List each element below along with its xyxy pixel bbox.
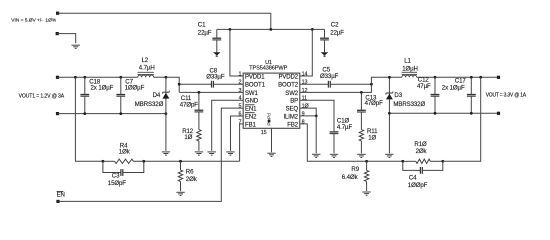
ground input [72,45,80,48]
junction dot BOOT2 tap [370,83,373,86]
svg-text:1Ø: 1Ø [184,134,192,141]
wire L2 to SW corner [154,77,180,92]
wire GND pin4 [212,100,244,151]
svg-text:FB2: FB2 [287,122,298,128]
junction dot C17 bottom [470,112,473,115]
ground D3 [385,154,393,157]
svg-text:PwPd: PwPd [267,113,273,126]
svg-text:1: 1 [238,71,241,77]
junction dot C12 bottom [434,112,437,115]
wire ground rail ch1 [58,113,166,115]
label VOUT2 [486,93,527,99]
capacitor C13 [357,92,366,129]
svg-text:VOUT = 3.3V @ 1A: VOUT = 3.3V @ 1A [486,93,527,99]
svg-text:BP: BP [290,99,298,105]
svg-text:BOOT2: BOOT2 [278,83,299,89]
svg-text:1ØØµF: 1ØØµF [125,85,145,92]
wire VOUT2 rail [417,76,499,78]
capacitor C7 [116,77,125,113]
svg-text:4: 4 [238,96,241,102]
label C12 [417,77,431,90]
wire input gnd stub [57,34,75,44]
ground D4 [162,152,170,155]
wire EN2 pin6 [231,116,244,151]
junction dot PVDD2 tap [311,28,314,31]
svg-text:D4: D4 [153,92,161,99]
resistor R10 [416,159,431,163]
svg-text:EN2: EN2 [245,114,257,120]
ground C1 arrow [213,52,221,57]
ground R12 C11 [195,152,203,155]
ground R6 [176,192,184,195]
svg-text:L1: L1 [404,58,411,65]
label R12 [182,128,194,141]
svg-text:15: 15 [261,130,267,136]
svg-text:Ø33µF: Ø33µF [320,73,339,80]
wire SEQ pin10 [300,108,316,116]
junction dot C17 top [470,76,473,79]
capacitor C5 [328,81,330,88]
label R6 [186,169,198,184]
svg-text:2: 2 [238,80,241,86]
svg-text:47ØpF: 47ØpF [180,101,199,108]
svg-text:EN1: EN1 [245,107,257,113]
svg-text:1ØØpF: 1ØØpF [408,182,428,189]
resistor R6 [178,161,182,191]
wire VIN rail drop to PVDD line [270,13,272,29]
svg-text:3: 3 [238,88,241,94]
label R4 [119,143,131,156]
label C3 [108,172,127,187]
ground C10 [330,154,338,157]
ground EN2 [226,152,234,155]
wire BOOT2 line [300,83,372,85]
svg-text:MBRS32Ø: MBRS32Ø [135,101,164,108]
svg-text:D3: D3 [394,92,402,99]
label C4 [408,174,428,189]
junction dot VOUT1 sense tap [74,76,77,79]
inductor L2 [138,72,154,77]
svg-text:GND: GND [245,99,259,105]
svg-text:2Øk: 2Øk [416,148,428,155]
node return terminal ch1 [56,112,59,115]
ground R11 [357,154,365,157]
svg-text:FB1: FB1 [245,122,256,128]
capacitor C10 [330,132,339,153]
junction dot C18 bottom [83,112,86,115]
label R10 [414,141,427,155]
label VIN [11,18,57,24]
junction dot R10 right [441,160,444,163]
wire SW1 line [179,91,243,93]
label C7 [125,78,145,91]
diode D4 MBRS320 [162,77,169,151]
node EN terminal [56,200,59,203]
svg-text:ILIM2: ILIM2 [283,114,298,120]
svg-text:SW2: SW2 [285,91,298,97]
junction dot D3 top [388,76,391,79]
svg-text:C1: C1 [198,22,206,29]
ground SEQ ILIM2 [312,154,320,157]
junction dot C12 top [434,76,437,79]
junction dot R4 right [142,160,145,163]
node VOUT1 terminal [56,76,59,79]
capacitor C3 parallel loop [103,161,144,176]
wire pin15 to ground [271,128,273,152]
svg-text:R6: R6 [186,169,194,176]
svg-text:2x 1ØµF: 2x 1ØµF [91,85,114,92]
ground pin15 [267,153,275,156]
junction dot PVDD1 tap [229,28,232,31]
label C1 [198,22,212,37]
svg-text:PVDD2: PVDD2 [278,74,298,80]
junction dot R4 left [102,160,105,163]
wire FB2 line [367,160,443,162]
ground C2 arrow [321,52,329,57]
wire ground rail ch2 [389,112,498,114]
svg-text:22µF: 22µF [330,29,344,36]
svg-text:TPS54386PWP: TPS54386PWP [249,66,287,72]
svg-text:BOOT1: BOOT1 [245,83,266,89]
node VOUT2 terminal [497,76,500,79]
label L2 [139,57,155,72]
svg-text:R1Ø: R1Ø [414,141,427,148]
capacitor C4 parallel loop [403,161,443,174]
junction dot R6 top [179,160,182,163]
capacitor C12 [431,77,440,113]
label R9 [342,166,360,181]
wire VOUT1 rail left [58,76,138,78]
svg-text:MBRS332Ø: MBRS332Ø [393,101,425,108]
svg-text:15ØpF: 15ØpF [108,180,127,187]
capacitor C1 [212,29,221,52]
junction dot C18 top [83,76,86,79]
resistor R12 [197,130,201,151]
svg-text:22µF: 22µF [198,29,212,36]
svg-text:6: 6 [238,111,241,117]
wire SW2 line [300,77,402,92]
junction dot FB2 sense tap [479,76,482,79]
label C17 [442,78,467,92]
wire ILIM2 pin9 [300,116,316,153]
svg-text:7: 7 [238,119,241,125]
wire FB2 pin8 [300,124,367,161]
svg-text:L2: L2 [142,57,149,64]
node return terminal ch2 [497,112,500,115]
junction dot C7 bottom [119,112,122,115]
node VIN input terminal [56,12,59,15]
label U1 [249,60,287,71]
resistor R4 [115,159,134,163]
junction dot snubber tap ch1 [198,91,201,94]
wire PVDD2 riser [300,29,313,76]
diode D3 MBRS3320 [386,77,393,153]
svg-text:2x 1ØµF: 2x 1ØµF [442,85,465,92]
svg-text:5: 5 [238,104,241,110]
label D4 [135,92,164,108]
label C11 [180,95,199,108]
svg-text:1Øk: 1Øk [119,149,131,156]
pin 15 PowerPAD [261,113,273,136]
svg-text:1ØµH: 1ØµH [402,66,418,73]
svg-text:SW1: SW1 [245,91,258,97]
resistor R9 [364,161,368,191]
label C10 [337,118,353,131]
wire BP line [300,100,334,132]
svg-text:SEQ: SEQ [286,107,299,113]
svg-text:C4: C4 [409,174,417,181]
wire FB1 line [103,160,240,162]
svg-text:1Ø: 1Ø [368,134,376,141]
junction dot snubber tap ch2 [360,91,363,94]
label VOUT1 [19,94,65,100]
wire FB1 riser [240,124,244,161]
junction dot SEQ ILIM2 [315,115,318,118]
label R11 [367,128,378,141]
svg-text:9: 9 [302,111,305,117]
svg-text:47µF: 47µF [417,83,431,90]
label C5 [320,67,339,80]
label EN [57,191,65,198]
wire PVDD1 riser [230,29,243,76]
junction dot VIN join [269,28,272,31]
wire FB2 sense riser [443,77,481,161]
svg-text:C17: C17 [455,78,467,85]
svg-text:4.7µH: 4.7µH [139,65,155,72]
capacitor C2 [320,29,329,52]
svg-text:C2: C2 [331,22,339,29]
junction dot BOOT1 tap [178,83,181,86]
capacitor C11 [195,92,204,129]
svg-text:47ØpF: 47ØpF [365,100,384,107]
label C13 [365,94,384,106]
op-amp U1 TPS54386PWP body [238,71,309,128]
svg-text:6.4Øk: 6.4Øk [342,174,359,181]
capacitor C17 [467,77,476,113]
svg-text:4.7µF: 4.7µF [337,124,353,131]
label C2 [330,22,344,37]
inductor L1 [402,72,417,77]
label C18 [89,78,113,91]
junction dot D3 rail [388,112,391,115]
svg-text:2Øk: 2Øk [186,176,198,183]
svg-text:VOUT1 = 1.2V @ 3A: VOUT1 = 1.2V @ 3A [19,94,65,100]
svg-text:VIN = 5.ØV +/- 1Ø%: VIN = 5.ØV +/- 1Ø% [11,18,57,24]
wire VOUT1 sense down [75,77,103,161]
junction dot C7 top [119,76,122,79]
wire PVDD horizontal line C1 to C2 [217,28,325,30]
node input GND terminal [56,32,59,35]
svg-text:PVDD1: PVDD1 [245,74,265,80]
ground pin4 [208,152,216,155]
capacitor C18 [80,77,89,113]
capacitor C8 [212,81,214,88]
junction dot SW1 node D4 [165,76,168,79]
svg-text:R9: R9 [351,166,359,173]
svg-text:C3: C3 [112,172,120,179]
junction dot R10 left [401,160,404,163]
junction dot rail to D4 [165,112,168,115]
label C8 [206,68,225,81]
wire BOOT1 line [179,83,243,85]
wire EN line [58,108,243,201]
resistor R11 [359,130,363,154]
ground R9 [362,192,370,195]
junction dot R9 top [365,160,368,163]
svg-text:Ø33µF: Ø33µF [206,74,225,81]
label L1 [402,58,418,73]
label D3 [393,92,425,108]
svg-text:EN: EN [57,191,65,198]
wire VIN top rail [58,12,271,14]
